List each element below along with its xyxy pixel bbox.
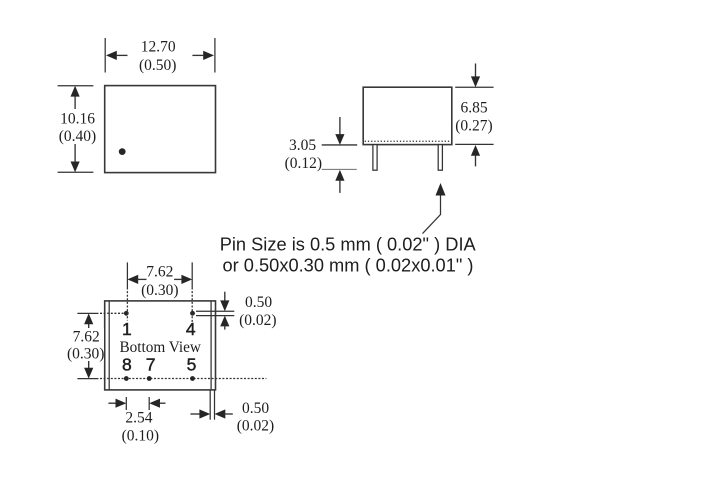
dim 7.62 left: up arrow (84, 313, 93, 324)
svg-text:5: 5 (187, 354, 197, 374)
svg-text:(0.12): (0.12) (285, 155, 322, 172)
svg-text:6.85: 6.85 (460, 99, 487, 116)
side view: package outline (363, 87, 452, 144)
dim 7.62 left: bottom extension line (77, 378, 98, 380)
svg-text:Pin Size is 0.5 mm ( 0.02" ) D: Pin Size is 0.5 mm ( 0.02" ) DIA (220, 233, 477, 254)
svg-text:4: 4 (186, 319, 196, 339)
side view: right pin (438, 145, 442, 171)
svg-text:Bottom View: Bottom View (119, 339, 201, 356)
svg-text:0.50: 0.50 (245, 294, 272, 311)
dim 7.62 left: label background (67, 328, 104, 361)
dim 7.62 top: right extension line (191, 262, 193, 287)
svg-text:(0.27): (0.27) (455, 117, 492, 134)
svg-text:(0.30): (0.30) (141, 282, 178, 299)
dim 10.16: dimension line (74, 93, 76, 165)
dim 6.85: bottom up arrow (471, 145, 480, 156)
side view: standoff dotted line (365, 140, 451, 142)
dim 0.50 pin dia: top tangent line (196, 310, 234, 312)
dim 10.16: down arrow (71, 162, 80, 173)
svg-text:7.62: 7.62 (146, 263, 173, 280)
svg-text:or 0.50x0.30 mm ( 0.02x0.01" ): or 0.50x0.30 mm ( 0.02x0.01" ) (223, 255, 474, 276)
dim 0.50 wall: right arrow (215, 409, 226, 418)
top view: package outline (105, 86, 216, 173)
dim 7.62 left: dimension line (88, 320, 90, 372)
dim 3.05: down arrow (339, 117, 341, 135)
bottom view: pin 8 (124, 376, 129, 381)
svg-text:3.05: 3.05 (289, 137, 316, 154)
dim 0.50 wall: left extension line (209, 390, 211, 420)
dim 12.70: left arrow (106, 51, 117, 60)
dim 10.16: top extension line (58, 85, 94, 87)
dim 0.50 wall: right extension line (214, 390, 216, 420)
svg-text:2.54: 2.54 (125, 410, 152, 427)
dim 12.70: right arrow (203, 51, 214, 60)
svg-text:0.50: 0.50 (242, 400, 269, 417)
top view: pin 1 index dot (119, 148, 126, 155)
dim 0.50 wall: left arrow (190, 413, 200, 415)
side view: left pin (373, 145, 377, 171)
dim 0.50 pin dia: down arrow (224, 292, 226, 302)
dim 0.50 pin dia: up arrow (220, 316, 229, 327)
svg-text:(0.40): (0.40) (59, 128, 96, 145)
bottom view: row2 dotted center line (100, 378, 266, 380)
dim 6.85: top down arrow (475, 64, 477, 79)
svg-text:(0.02): (0.02) (239, 312, 276, 329)
dim 2.54: left arrow (108, 402, 116, 404)
dim 2.54: right extension line (148, 397, 150, 410)
svg-text:7.62: 7.62 (73, 329, 100, 346)
bottom view: pin 1 (124, 311, 129, 316)
svg-text:12.70: 12.70 (141, 39, 176, 56)
svg-text:(0.10): (0.10) (122, 428, 159, 445)
svg-text:10.16: 10.16 (60, 111, 95, 128)
dim 6.85: top extension line (455, 86, 493, 88)
svg-text:(0.30): (0.30) (67, 346, 104, 363)
svg-text:(0.50): (0.50) (139, 57, 176, 74)
bottom view: package outline (105, 301, 216, 390)
bottom view: row1 dotted center line (100, 312, 126, 314)
dim 7.62 top: left arrow (127, 275, 138, 284)
bottom view: right inner wall line (210, 301, 212, 390)
dim 10.16: up arrow (71, 86, 80, 97)
dim 6.85: bottom extension line (455, 143, 493, 145)
dim 2.54: left extension line (125, 397, 127, 410)
bottom view: pin 4 (190, 311, 195, 316)
dim 0.50 pin dia: bottom tangent line (196, 315, 234, 317)
dim 12.70: left extension line (104, 38, 106, 73)
bottom view: pin 5 (190, 376, 195, 381)
dim 7.62 left: top extension line (77, 312, 98, 314)
dim 3.05: bottom extension line (322, 168, 357, 170)
dim 3.05: top extension line (322, 144, 358, 146)
dim 7.62 left: down arrow (84, 368, 93, 379)
dim 10.16: label background (58, 109, 97, 144)
svg-text:1: 1 (122, 319, 132, 339)
pin size leader arrow (423, 194, 441, 234)
bottom view: pin 7 (147, 376, 152, 381)
bottom view: left inner wall line (108, 301, 110, 390)
dim 12.70: right extension line (214, 38, 216, 73)
svg-text:7: 7 (146, 354, 156, 374)
dim 7.62 top: right arrow (181, 275, 192, 284)
dim 3.05: up arrow (335, 170, 344, 181)
dim 7.62 top: left extension line (126, 262, 128, 287)
svg-text:8: 8 (122, 354, 132, 374)
dim 2.54: right arrow (149, 399, 160, 408)
svg-text:(0.02): (0.02) (237, 418, 274, 435)
dim 10.16: bottom extension line (58, 171, 94, 173)
